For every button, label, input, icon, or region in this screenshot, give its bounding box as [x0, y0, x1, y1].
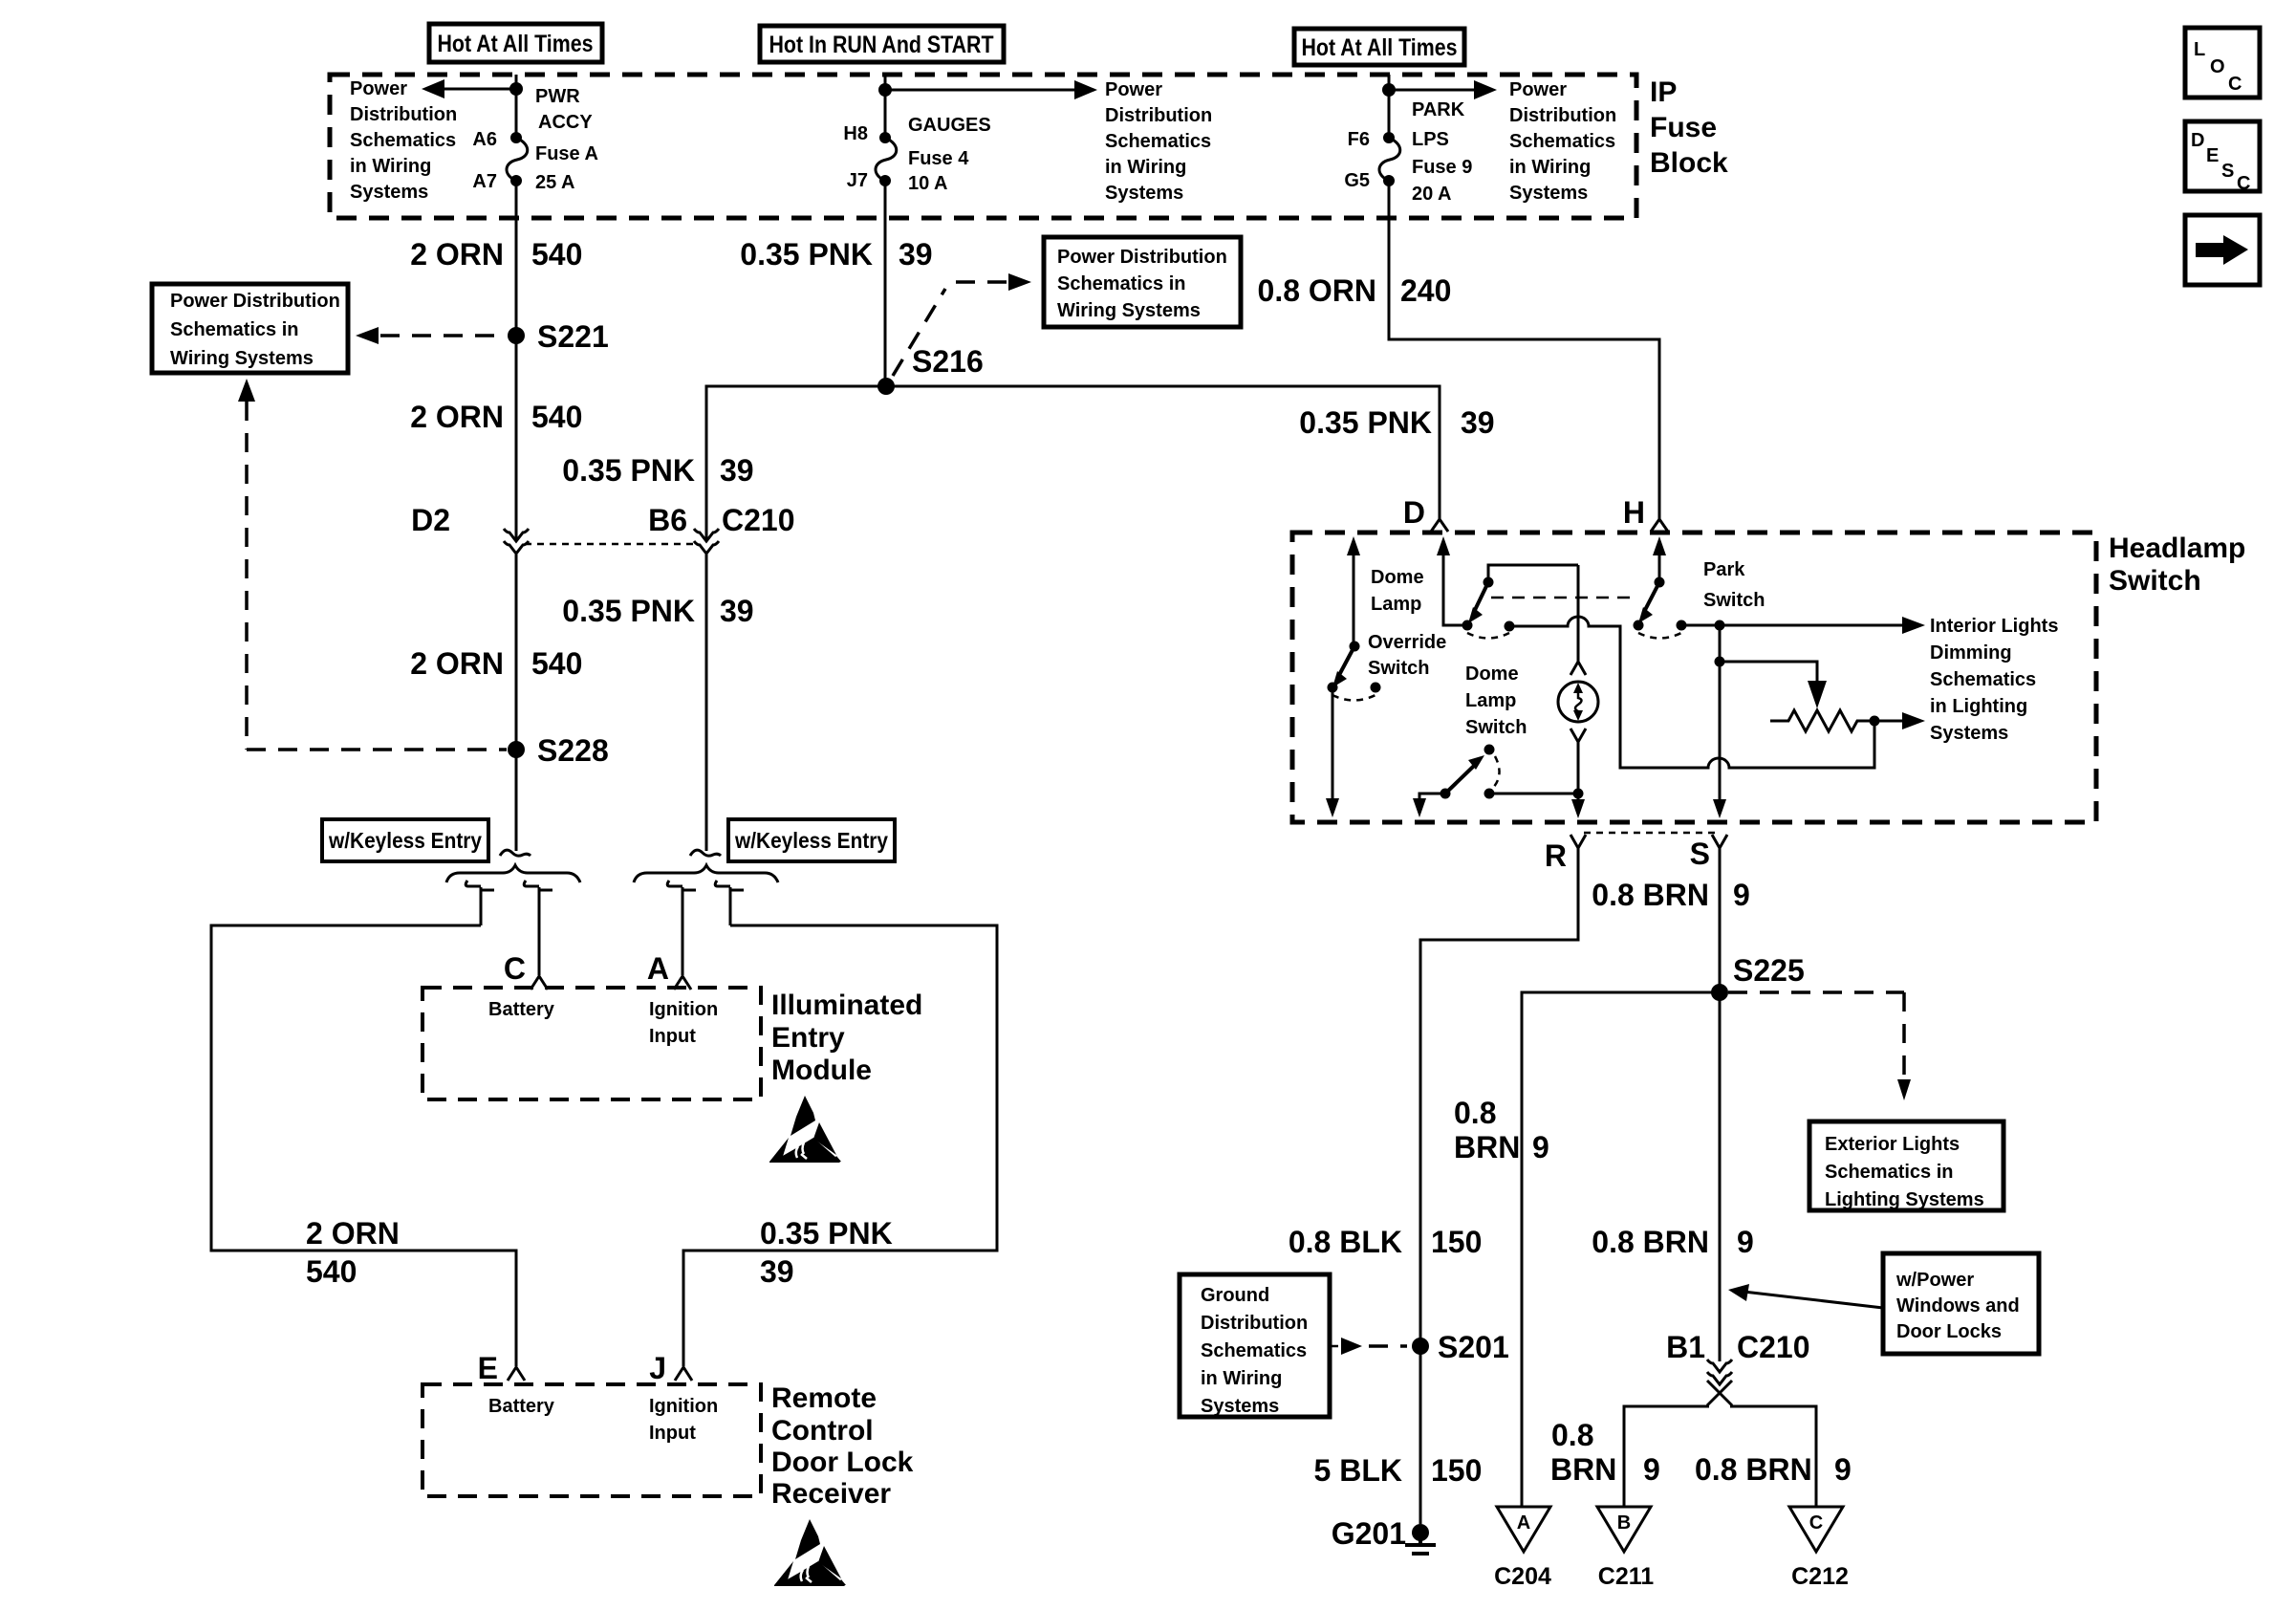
- option brace (right): [634, 865, 778, 882]
- svg-text:Headlamp: Headlamp: [2109, 533, 2245, 564]
- svg-text:C: C: [2228, 74, 2242, 95]
- wire: switch to lamp junction: [1489, 793, 1578, 795]
- svg-text:Exterior Lights: Exterior Lights: [1825, 1134, 1960, 1155]
- ESD symbol (Illuminated Entry Module): [769, 1096, 841, 1163]
- IP Fuse Block label: [1650, 76, 1728, 179]
- svg-text:9: 9: [1532, 1130, 1549, 1164]
- svg-text:E: E: [2206, 145, 2219, 166]
- label: Dome Lamp Switch: [1465, 664, 1527, 738]
- connector fork E (Remote Control Door Lock Receiver): [478, 1351, 525, 1385]
- svg-text:J7: J7: [847, 170, 868, 191]
- label: Illuminated Entry Module: [771, 990, 922, 1086]
- wire break squiggle (left): [500, 850, 531, 856]
- park switch arm: [1638, 582, 1659, 623]
- svg-text:B1: B1: [1666, 1330, 1705, 1364]
- svg-text:C: C: [504, 951, 526, 986]
- svg-text:0.35 PNK: 0.35 PNK: [562, 594, 695, 628]
- label: 2 ORN 540 (3): [410, 646, 582, 681]
- svg-text:Distribution: Distribution: [1105, 105, 1212, 126]
- svg-text:Wiring Systems: Wiring Systems: [1057, 300, 1201, 321]
- wire: S225 branch left to triangle A: [1522, 992, 1720, 1507]
- svg-text:IP: IP: [1650, 76, 1677, 108]
- w/Keyless Entry label box (left): [322, 819, 488, 861]
- Illuminated Entry Module dashed box: [422, 988, 761, 1099]
- svg-text:A: A: [1517, 1512, 1530, 1534]
- svg-text:Fuse A: Fuse A: [535, 143, 598, 164]
- svg-text:A6: A6: [472, 129, 497, 150]
- svg-text:0.35 PNK: 0.35 PNK: [760, 1216, 893, 1251]
- svg-text:Entry: Entry: [771, 1022, 845, 1054]
- label: 0.35 PNK 39 (bottom): [760, 1216, 893, 1289]
- svg-text:0.8: 0.8: [1551, 1418, 1593, 1452]
- Hot At All Times label box (right): [1294, 29, 1464, 65]
- svg-text:Door Lock: Door Lock: [771, 1447, 914, 1478]
- svg-text:in Wiring: in Wiring: [350, 156, 431, 177]
- label: Ignition Input (IEM): [649, 999, 718, 1047]
- svg-text:9: 9: [1737, 1225, 1754, 1259]
- wire: branch to triangle B: [1624, 1406, 1709, 1507]
- wire: arrow to Power Distribution (right): [1389, 80, 1497, 99]
- svg-text:39: 39: [720, 453, 754, 488]
- park switch feed up arrow: [1653, 536, 1666, 555]
- label: Power Distribution Schematics in Wiring Systems (fuse A): [350, 78, 457, 203]
- svg-text:C: C: [1809, 1512, 1823, 1534]
- wire: override switch to bottom (down arrow): [1326, 687, 1339, 817]
- svg-text:10 A: 10 A: [908, 173, 948, 194]
- fuse A (PWR ACCY 25A): [507, 132, 528, 186]
- wire: 2 ORN branch to Remote Control Door Lock Receiver: [211, 925, 516, 1366]
- connector fork D (headlamp switch): [1403, 495, 1448, 532]
- svg-text:C211: C211: [1598, 1563, 1654, 1590]
- inline connector half (hook 4): [715, 881, 744, 925]
- svg-text:D: D: [2191, 130, 2204, 151]
- svg-text:2 ORN: 2 ORN: [410, 646, 504, 681]
- connector C210 pin D2 (double chevron): [504, 529, 529, 554]
- label: Remote Control Door Lock Receiver: [771, 1382, 914, 1510]
- label: Ignition Input (RCDLR): [649, 1396, 718, 1444]
- dome lamp switch (bottom) arm: [1445, 755, 1484, 794]
- svg-text:L: L: [2194, 39, 2205, 60]
- wire: S drop from junction to S fork (down arrow): [1713, 662, 1726, 818]
- svg-text:Schematics: Schematics: [1105, 131, 1211, 152]
- node: junction above Fuse 9: [1382, 83, 1396, 97]
- label: Interior Lights Dimming Schematics in Lighting Systems: [1930, 616, 2058, 744]
- switch linkage dashed line: [1491, 597, 1637, 599]
- svg-text:25 A: 25 A: [535, 172, 575, 193]
- svg-text:Ignition: Ignition: [649, 999, 718, 1020]
- svg-text:C: C: [2237, 173, 2250, 194]
- wire: arrow to Power Distribution (left): [422, 79, 516, 98]
- label: 0.35 PNK 39 (fuse 4 drop): [740, 237, 932, 272]
- node: lamp junction: [1573, 789, 1584, 799]
- svg-text:C210: C210: [1737, 1330, 1810, 1364]
- svg-text:Input: Input: [649, 1423, 696, 1444]
- svg-text:C212: C212: [1791, 1563, 1849, 1590]
- svg-text:Distribution: Distribution: [1201, 1313, 1308, 1334]
- wire: junction down to rheostat branch: [1719, 625, 1722, 662]
- svg-text:A7: A7: [472, 171, 497, 192]
- svg-text:Power: Power: [350, 78, 407, 99]
- splice S221: [508, 319, 609, 354]
- wire: park switch feed H: [1658, 553, 1661, 582]
- svg-text:S: S: [1690, 837, 1710, 871]
- svg-text:Control: Control: [771, 1415, 874, 1447]
- node: resistor output junction: [1870, 716, 1880, 727]
- svg-text:Hot At All Times: Hot At All Times: [438, 31, 594, 57]
- svg-text:540: 540: [531, 400, 582, 434]
- node: rheostat branch junction: [1715, 657, 1725, 667]
- dome lamp switch (top) pivot: [1484, 577, 1494, 588]
- connector fork S: [1690, 835, 1727, 871]
- label: 0.8 BLK 150: [1289, 1225, 1483, 1259]
- svg-text:Ground: Ground: [1201, 1285, 1269, 1306]
- Hot In RUN And START label box: [760, 26, 1004, 62]
- svg-text:Lamp: Lamp: [1371, 594, 1421, 615]
- w/Keyless Entry label box (right): [728, 819, 895, 861]
- svg-text:Dimming: Dimming: [1930, 642, 2012, 664]
- connector C210 pin B1 (double chevron): [1707, 1360, 1732, 1384]
- wire break squiggle (right): [690, 850, 721, 856]
- splice S201: [1412, 1330, 1509, 1364]
- svg-text:D2: D2: [411, 503, 450, 537]
- svg-text:9: 9: [1643, 1452, 1660, 1487]
- svg-text:PWR: PWR: [535, 86, 580, 107]
- svg-text:0.8 BRN: 0.8 BRN: [1592, 1225, 1709, 1259]
- dome lamp switch (bottom) pivot: [1484, 745, 1495, 755]
- connector fork A (Illuminated Entry Module): [647, 951, 691, 990]
- LOC reference box: [2185, 28, 2260, 98]
- svg-text:9: 9: [1834, 1452, 1852, 1487]
- svg-text:0.8 ORN: 0.8 ORN: [1258, 273, 1376, 308]
- dome lamp switch (top) contacts and arc: [1462, 620, 1515, 639]
- svg-text:Battery: Battery: [488, 999, 555, 1020]
- svg-text:Interior Lights: Interior Lights: [1930, 616, 2058, 637]
- connector fork C (Illuminated Entry Module): [504, 951, 548, 990]
- label: 0.8 BRN 9 (S drop): [1592, 878, 1750, 912]
- svg-text:Input: Input: [649, 1026, 696, 1047]
- svg-text:B: B: [1617, 1512, 1631, 1534]
- wire: junction to R fork (down arrow): [1571, 794, 1585, 818]
- svg-text:in Wiring: in Wiring: [1105, 157, 1186, 178]
- svg-text:Door Locks: Door Locks: [1896, 1321, 2002, 1342]
- svg-text:Schematics in: Schematics in: [1825, 1162, 1954, 1183]
- reference box: Ground Distribution Schematics in Wiring Systems: [1180, 1274, 1330, 1417]
- svg-text:PARK: PARK: [1412, 99, 1465, 120]
- svg-text:w/Keyless Entry: w/Keyless Entry: [328, 828, 482, 853]
- off-page triangle B: [1597, 1507, 1651, 1552]
- label: 0.35 PNK 39 (2): [562, 594, 753, 628]
- label: 5 BLK 150: [1314, 1453, 1483, 1488]
- label: 0.8 BRN 9 (branch B): [1550, 1418, 1660, 1487]
- svg-text:Receiver: Receiver: [771, 1478, 891, 1510]
- svg-text:5 BLK: 5 BLK: [1314, 1453, 1402, 1488]
- label: Override Switch: [1368, 632, 1446, 679]
- splice S216: [877, 344, 984, 395]
- svg-text:39: 39: [720, 594, 754, 628]
- dome lamp switch (bottom) arc: [1493, 756, 1500, 788]
- wire: rheostat wiper feed (down arrow onto resistor): [1720, 662, 1827, 708]
- svg-text:Power: Power: [1509, 79, 1567, 100]
- label: 0.8 BRN 9 (to B1): [1592, 1225, 1754, 1259]
- label: Dome Lamp: [1371, 567, 1424, 615]
- svg-text:Switch: Switch: [1703, 590, 1765, 611]
- svg-text:Switch: Switch: [1465, 717, 1527, 738]
- svg-text:G5: G5: [1344, 170, 1370, 191]
- svg-text:Fuse 4: Fuse 4: [908, 148, 969, 169]
- wire: arrow to Power Distribution (middle): [885, 80, 1097, 99]
- dashed connector line R-S: [1584, 832, 1715, 835]
- reference box: Power Distribution Schematics in Wiring Systems (middle): [1044, 237, 1241, 327]
- wire: fuse 9 feed from top: [1388, 75, 1391, 138]
- wire: lamp drop: [1577, 565, 1580, 662]
- svg-text:9: 9: [1733, 878, 1750, 912]
- wire: resistor output arrow (to Interior Lights Dimming): [1874, 712, 1925, 729]
- reference box: Exterior Lights Schematics in Lighting Systems: [1809, 1121, 2004, 1210]
- wire: fuse 4 feed from top: [884, 75, 887, 138]
- dashed arrow from S216 to Power Distribution reference: [893, 273, 1031, 376]
- svg-text:39: 39: [899, 237, 933, 272]
- ground G201: [1332, 1516, 1436, 1554]
- svg-text:H8: H8: [843, 123, 868, 144]
- svg-text:Switch: Switch: [2109, 565, 2201, 597]
- inline connector half (hook 1): [466, 881, 494, 925]
- override switch arm: [1332, 646, 1354, 687]
- wire: 2 ORN below C210: [515, 555, 518, 851]
- svg-text:E: E: [478, 1351, 498, 1385]
- svg-text:S201: S201: [1438, 1330, 1509, 1364]
- svg-text:in Wiring: in Wiring: [1201, 1368, 1282, 1389]
- svg-text:Distribution: Distribution: [350, 104, 457, 125]
- Headlamp Switch dashed box: [1292, 533, 2096, 822]
- svg-text:Systems: Systems: [350, 182, 428, 203]
- wire: fuse A feed from top: [515, 75, 518, 138]
- svg-text:G201: G201: [1332, 1516, 1406, 1551]
- svg-text:Windows and: Windows and: [1896, 1295, 2020, 1316]
- Hot At All Times label box (left): [429, 24, 602, 62]
- svg-text:0.8 BRN: 0.8 BRN: [1695, 1452, 1812, 1487]
- dashed arrow from S221 to Power Distribution box: [356, 327, 507, 344]
- svg-text:BRN: BRN: [1550, 1452, 1616, 1487]
- svg-text:Systems: Systems: [1930, 723, 2008, 744]
- wire: branch to triangle C: [1730, 1406, 1816, 1507]
- connector fork below lamp: [1570, 729, 1586, 742]
- wire: R drop to ground riser: [1420, 848, 1578, 1524]
- svg-text:0.8 BRN: 0.8 BRN: [1592, 878, 1709, 912]
- svg-text:S221: S221: [537, 319, 609, 354]
- svg-text:BRN: BRN: [1454, 1130, 1520, 1164]
- svg-text:Schematics: Schematics: [1201, 1340, 1307, 1361]
- wire: S drop to S225: [1719, 848, 1722, 992]
- label: 0.35 PNK 39 (1): [562, 453, 753, 488]
- IP Fuse Block dashed outline: [330, 75, 1636, 218]
- svg-text:Schematics: Schematics: [1930, 669, 2036, 690]
- option brace (left): [446, 865, 580, 882]
- label: 0.8 BRN 9 (branch A): [1454, 1096, 1549, 1164]
- forward arrow reference box: [2185, 215, 2260, 285]
- DESC reference box: [2185, 121, 2260, 194]
- label: 2 ORN 540 (1): [410, 237, 582, 272]
- svg-text:C204: C204: [1494, 1563, 1551, 1590]
- off-page triangle A: [1497, 1507, 1550, 1552]
- svg-text:R: R: [1545, 838, 1567, 873]
- svg-text:Dome: Dome: [1465, 664, 1519, 685]
- off-page triangle C: [1789, 1507, 1843, 1552]
- svg-text:Module: Module: [771, 1055, 872, 1086]
- wire: pivot riser to lamp branch: [1488, 565, 1578, 582]
- label: 0.8 ORN 240: [1258, 273, 1452, 308]
- svg-text:F6: F6: [1348, 129, 1370, 150]
- wire: 0.35 PNK from fuse 4 down to S216: [884, 181, 887, 386]
- label: Power Distribution Schematics in Wiring Systems (fuse 4): [1105, 79, 1212, 204]
- svg-text:39: 39: [760, 1254, 794, 1289]
- label: PARK LPS Fuse 9 20 A: [1412, 99, 1472, 205]
- connector fork H (headlamp switch): [1623, 495, 1668, 532]
- svg-text:2 ORN: 2 ORN: [410, 237, 504, 272]
- svg-text:0.8 BLK: 0.8 BLK: [1289, 1225, 1402, 1259]
- svg-text:0.8: 0.8: [1454, 1096, 1496, 1130]
- connector fork J (Remote Control Door Lock Receiver): [649, 1351, 692, 1385]
- svg-text:20 A: 20 A: [1412, 184, 1452, 205]
- svg-text:Hot At All Times: Hot At All Times: [1302, 34, 1458, 61]
- inline connector half (hook 3): [667, 881, 696, 975]
- label: Park Switch: [1703, 559, 1765, 611]
- dome lamp switch (top) arm: [1468, 582, 1488, 623]
- label: 0.35 PNK 39 (to headlamp switch): [1299, 405, 1494, 440]
- svg-text:Override: Override: [1368, 632, 1446, 653]
- svg-text:O: O: [2210, 56, 2225, 77]
- svg-text:Systems: Systems: [1509, 183, 1588, 204]
- svg-text:B6: B6: [648, 503, 687, 537]
- svg-text:0.35 PNK: 0.35 PNK: [740, 237, 873, 272]
- connector fork above lamp: [1570, 662, 1586, 675]
- svg-text:2 ORN: 2 ORN: [410, 400, 504, 434]
- svg-text:Schematics: Schematics: [1509, 131, 1615, 152]
- svg-text:in Wiring: in Wiring: [1509, 157, 1591, 178]
- svg-text:Systems: Systems: [1201, 1396, 1279, 1417]
- label: PWR ACCY Fuse A 25 A: [535, 86, 598, 193]
- reference box: Power Distribution Schematics in Wiring Systems (left): [152, 284, 348, 373]
- svg-text:540: 540: [531, 237, 582, 272]
- svg-text:w/Power: w/Power: [1895, 1270, 1974, 1291]
- wire: 0.8 ORN 240 from fuse 9 to headlamp switch: [1389, 181, 1659, 519]
- park switch pivot: [1655, 577, 1665, 588]
- svg-text:540: 540: [531, 646, 582, 681]
- wire: D feed into dome lamp switch: [1437, 536, 1462, 625]
- svg-text:A: A: [647, 951, 669, 986]
- svg-text:GAUGES: GAUGES: [908, 115, 991, 136]
- wire: dome lamp switch to R (down arrow): [1413, 794, 1445, 817]
- svg-text:Wiring Systems: Wiring Systems: [170, 348, 314, 369]
- override switch contacts and arc: [1328, 683, 1381, 701]
- svg-text:LPS: LPS: [1412, 129, 1449, 150]
- wire: S225 down to B1/C210: [1719, 992, 1722, 1361]
- svg-text:C210: C210: [722, 503, 795, 537]
- override switch pivot: [1350, 642, 1360, 652]
- svg-text:Dome: Dome: [1371, 567, 1424, 588]
- dashed wire from S225 to Exterior Lights box: [1728, 992, 1911, 1100]
- wire: park switch to interior lights arrow: [1681, 617, 1925, 634]
- dome lamp (bulb circle): [1558, 682, 1598, 722]
- svg-text:Schematics in: Schematics in: [1057, 273, 1186, 294]
- wire crossover below C210: [1707, 1381, 1732, 1405]
- svg-text:H: H: [1623, 495, 1645, 530]
- svg-text:ACCY: ACCY: [538, 112, 593, 133]
- inline connector half (hook 2): [524, 881, 552, 975]
- svg-text:Illuminated: Illuminated: [771, 990, 922, 1021]
- resistor (rheostat): [1770, 710, 1874, 731]
- wire: dome switch output with hop over lamp wire: [1509, 617, 1874, 768]
- svg-text:39: 39: [1461, 405, 1495, 440]
- svg-text:240: 240: [1400, 273, 1451, 308]
- splice S228: [508, 733, 609, 768]
- node: junction above Fuse 4: [878, 83, 892, 97]
- svg-text:Fuse 9: Fuse 9: [1412, 157, 1472, 178]
- svg-text:Battery: Battery: [488, 1396, 555, 1417]
- svg-text:Distribution: Distribution: [1509, 105, 1616, 126]
- label: 2 ORN 540 (bottom): [306, 1216, 400, 1289]
- wire: dome lamp feed (up arrow): [1347, 536, 1360, 646]
- wire: 2 ORN 540 from fuse A to C210: [515, 181, 518, 541]
- svg-text:Switch: Switch: [1368, 658, 1429, 679]
- ESD symbol (Remote Control Door Lock Receiver): [774, 1519, 846, 1586]
- svg-text:0.35 PNK: 0.35 PNK: [1299, 405, 1432, 440]
- svg-text:2 ORN: 2 ORN: [306, 1216, 400, 1251]
- svg-text:in Lighting: in Lighting: [1930, 696, 2027, 717]
- svg-text:Remote: Remote: [771, 1382, 877, 1414]
- svg-text:150: 150: [1431, 1225, 1482, 1259]
- svg-text:Power: Power: [1105, 79, 1162, 100]
- svg-text:Schematics in: Schematics in: [170, 319, 299, 340]
- park switch contacts and arc: [1634, 620, 1687, 639]
- wire: lamp to switch junction: [1577, 742, 1580, 794]
- label: GAUGES Fuse 4 10 A: [908, 115, 991, 194]
- svg-text:S225: S225: [1733, 953, 1805, 988]
- dome lamp switch (bottom) contacts: [1440, 789, 1495, 799]
- svg-text:Block: Block: [1650, 147, 1728, 179]
- svg-text:Power Distribution: Power Distribution: [170, 291, 340, 312]
- label: Headlamp Switch: [2109, 533, 2245, 597]
- Remote Control Door Lock Receiver dashed box: [422, 1384, 761, 1496]
- dashed wire from S228 up to Power Distribution box (with up arrow): [238, 379, 255, 750]
- svg-text:Schematics: Schematics: [350, 130, 456, 151]
- svg-text:Park: Park: [1703, 559, 1745, 580]
- dashed connector line C210: [525, 543, 698, 546]
- wire: 0.35 PNK branch to Remote Control Door Lock Receiver: [683, 925, 997, 1366]
- label: 0.8 BRN 9 (branch C): [1695, 1452, 1852, 1487]
- arrow from w/Power box to S wire: [1728, 1284, 1883, 1308]
- svg-text:D: D: [1403, 495, 1425, 530]
- splice S225: [1711, 953, 1805, 1001]
- svg-text:J: J: [649, 1351, 666, 1385]
- svg-text:Hot In RUN And START: Hot In RUN And START: [769, 32, 994, 58]
- svg-text:S: S: [2221, 161, 2234, 182]
- dashed arrow from Ground Distribution box to S201: [1332, 1338, 1407, 1355]
- svg-text:Power Distribution: Power Distribution: [1057, 247, 1227, 268]
- svg-text:Systems: Systems: [1105, 183, 1183, 204]
- node: junction above Fuse A: [509, 82, 523, 96]
- svg-text:540: 540: [306, 1254, 357, 1289]
- fuse 4 (GAUGES 10A): [876, 132, 897, 186]
- label: 2 ORN 540 (2): [410, 400, 582, 434]
- svg-text:S216: S216: [912, 344, 984, 379]
- svg-text:w/Keyless Entry: w/Keyless Entry: [734, 828, 888, 853]
- connector fork R: [1545, 835, 1586, 873]
- svg-text:0.35 PNK: 0.35 PNK: [562, 453, 695, 488]
- fuse 9 (PARK LPS 20A): [1379, 132, 1400, 186]
- connector C210 pin B6 (double chevron): [694, 529, 719, 554]
- wire: 0.35 PNK below C210: [705, 555, 708, 851]
- label: Power Distribution Schematics in Wiring Systems (fuse 9): [1509, 79, 1616, 204]
